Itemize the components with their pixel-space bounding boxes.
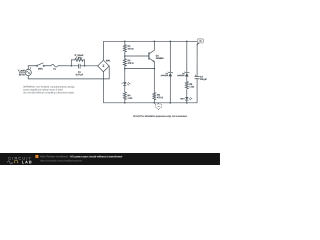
label D1 [161, 73, 169, 77]
zener D1 [168, 41, 173, 103]
label V1 [18, 70, 26, 76]
footer bar [0, 153, 220, 165]
svg-text:F1: F1 [53, 69, 56, 71]
wire R3 bottom to emitter [125, 68, 155, 70]
fuse F1 [51, 65, 58, 68]
wire [102, 41, 104, 60]
svg-text:do not build without consultin: do not build without consulting a licens… [23, 91, 75, 94]
resistor R5 [153, 92, 156, 102]
resistor R2 [123, 41, 126, 56]
svg-text:Mike Robbins (mrobbins) / AC p: Mike Robbins (mrobbins) / AC power your … [40, 155, 122, 158]
wire [58, 65, 72, 67]
svg-text:LAB: LAB [22, 160, 33, 164]
svg-text:1 kΩ: 1 kΩ [127, 98, 132, 100]
node bottom rail x154.3 [153, 102, 155, 104]
wire [85, 65, 98, 67]
node top rail x154.3 [154, 41, 156, 43]
svg-text:1 MΩ: 1 MΩ [76, 57, 82, 59]
svg-text:R4: R4 [127, 94, 131, 97]
transistor Q1 [149, 41, 155, 62]
zener D2 [184, 41, 189, 81]
node A [71, 65, 73, 67]
avatar icon [35, 155, 38, 158]
svg-text:http://circuitlab.com/c/4pd8w/: http://circuitlab.com/c/4pd8w/acpower [40, 159, 82, 162]
svg-text:1N4733A: 1N4733A [177, 74, 185, 77]
wire [124, 85, 126, 92]
ground [155, 103, 161, 110]
LED LED1 [123, 82, 130, 85]
wire emitter [153, 62, 155, 93]
capacitor C2 [195, 45, 200, 103]
node top rail x124.8 [124, 41, 126, 43]
node x154.3 y68.6 [154, 68, 156, 70]
svg-text:+: + [122, 83, 124, 85]
wire neutral [28, 66, 109, 79]
LED LED2 [185, 97, 192, 100]
wire base [125, 55, 149, 57]
svg-text:LED1: LED1 [180, 98, 185, 100]
resistor R1 [71, 58, 84, 65]
voltage source V1 [25, 67, 31, 75]
svg-text:2N3904: 2N3904 [156, 57, 164, 60]
svg-text:0.47 µF: 0.47 µF [76, 73, 84, 76]
svg-text:SW1: SW1 [38, 68, 44, 70]
node top rail x186.8 [186, 41, 188, 43]
label C1 [76, 72, 84, 77]
node bottom rail x124.8 [124, 102, 126, 104]
svg-text:1N4733A: 1N4733A [161, 74, 169, 77]
resistor R6 [185, 81, 188, 97]
switch SW1 [36, 63, 44, 67]
resistor R3 [123, 56, 126, 82]
svg-text:470 Ω: 470 Ω [128, 62, 134, 65]
svg-text:470 Ω: 470 Ω [157, 96, 163, 99]
label D2 [177, 73, 185, 77]
node bottom rail x170.3 [169, 102, 171, 104]
bridge rectifier BR1 [98, 60, 110, 72]
wire [186, 100, 188, 103]
wire top rail [103, 40, 197, 42]
node x124.8 y68.6 [124, 68, 126, 70]
node top rail x170.3 [170, 41, 172, 43]
resistor R4 [123, 92, 126, 103]
wire bridge negative [102, 72, 104, 103]
wire bottom rail [103, 102, 197, 104]
node base junction [124, 55, 126, 57]
node B [84, 65, 86, 67]
logo waveform [8, 161, 14, 164]
svg-text:60 Hz: 60 Hz [19, 74, 26, 76]
node flag [197, 39, 203, 45]
warning text [23, 86, 75, 95]
capacitor C1 [71, 64, 84, 69]
svg-text:1 kΩ: 1 kΩ [189, 87, 194, 89]
svg-text:BR1: BR1 [106, 60, 111, 62]
label R1 [75, 55, 84, 60]
svg-text:Ground for simulation purposes: Ground for simulation purposes only; not… [133, 115, 188, 118]
wire [28, 66, 36, 70]
svg-text:10 kΩ: 10 kΩ [128, 49, 134, 51]
svg-text:100 µF: 100 µF [200, 79, 208, 81]
wire [44, 65, 51, 67]
node bottom rail x186.8 [186, 102, 188, 104]
